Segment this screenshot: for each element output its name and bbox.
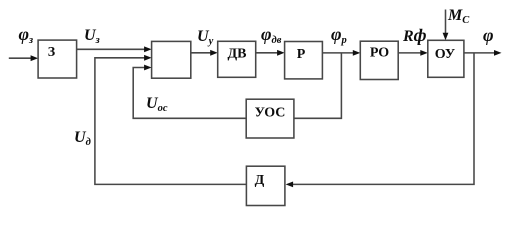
- block DV (motor): [218, 41, 256, 77]
- wire: UOS output to comparator (U_os feedback): [133, 65, 246, 119]
- block UOS (feedback amplifier): [246, 99, 294, 138]
- svg-text:φ: φ: [483, 25, 494, 45]
- wire: comparator to DV (U_y): [191, 50, 218, 56]
- block Z (setpoint): [38, 40, 77, 78]
- comparator block (summing element): [152, 41, 191, 78]
- block D (sensor): [246, 166, 285, 205]
- wire: DV to R (phi_dv): [256, 50, 285, 56]
- wire: R to RO (phi_p): [322, 50, 360, 56]
- svg-text:ОУ: ОУ: [435, 47, 455, 62]
- svg-text:Р: Р: [297, 47, 306, 62]
- wire: disturbance M_C into OU: [443, 10, 449, 41]
- wire: OU output (phi): [464, 50, 502, 56]
- wire U_z: Z to comparator: [77, 46, 152, 52]
- wire: RO to OU (Rf): [398, 50, 428, 56]
- wire: D output to comparator (U_d feedback): [95, 55, 247, 185]
- svg-text:ДВ: ДВ: [228, 47, 247, 62]
- svg-text:Rф: Rф: [402, 25, 427, 45]
- block OU (controlled object): [428, 40, 464, 77]
- svg-text:УОС: УОС: [255, 106, 286, 121]
- wire: branch from phi_p node down to UOS input: [294, 53, 342, 118]
- svg-text:З: З: [48, 45, 55, 60]
- svg-text:Д: Д: [255, 173, 265, 188]
- arrowhead into D: [286, 182, 294, 188]
- wire: input arrow phi_z: [9, 55, 38, 61]
- block RO (working element): [360, 41, 398, 79]
- block R (reducer): [285, 42, 323, 79]
- svg-text:РО: РО: [370, 46, 389, 61]
- wire: output branch down to D: [293, 53, 474, 185]
